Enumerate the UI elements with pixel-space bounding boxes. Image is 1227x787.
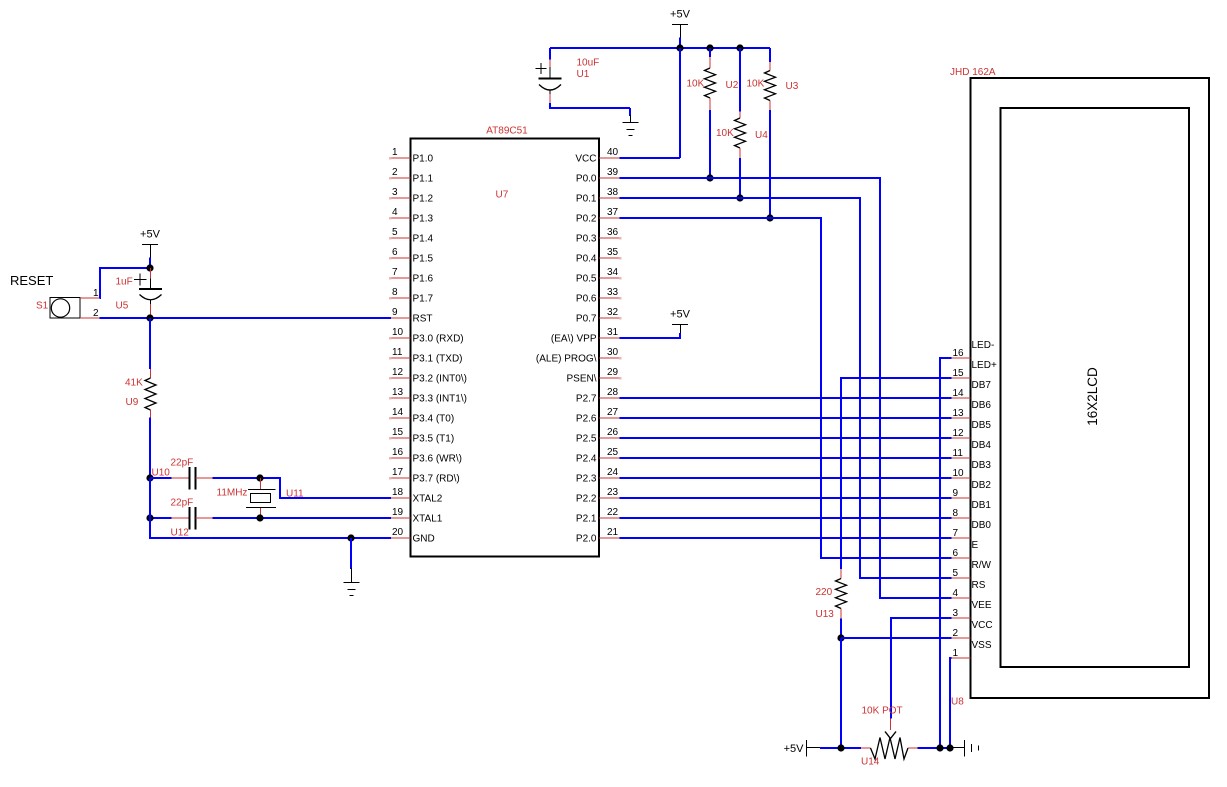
U7 pin 6 P1.5 [389,247,434,265]
svg-text:22pF: 22pF [171,498,194,509]
svg-text:U1: U1 [577,69,590,80]
U7 pin 40 VCC [575,147,619,165]
U7 pin 36 P0.3 [576,227,622,245]
wire P2.2 to DB2 [620,497,952,499]
svg-text:DB7: DB7 [972,380,992,391]
svg-text:1uF: 1uF [116,277,133,288]
svg-text:P3.1 (TXD): P3.1 (TXD) [413,354,463,365]
svg-text:P3.3 (INT1\): P3.3 (INT1\) [413,394,467,405]
svg-text:P1.6: P1.6 [413,274,434,285]
svg-text:P0.5: P0.5 [576,274,597,285]
svg-text:22: 22 [607,507,619,518]
svg-text:DB2: DB2 [972,480,992,491]
U7 pin 12 P3.2 (INT0\) [389,367,467,385]
svg-text:P1.2: P1.2 [413,194,434,205]
svg-text:14: 14 [953,388,965,399]
U8 pin 1 VSS [952,640,992,659]
svg-text:U12: U12 [171,528,190,539]
svg-text:17: 17 [392,467,404,478]
svg-text:P3.5 (T1): P3.5 (T1) [413,434,455,445]
U8 pin 4 RS [952,580,986,599]
svg-text:LED-: LED- [972,340,995,351]
svg-text:DB6: DB6 [972,400,992,411]
U8 pin 8 DB1 [952,500,992,519]
wire P2.4 to DB4 [620,457,952,459]
svg-text:P1.4: P1.4 [413,234,434,245]
svg-text:(ALE) PROG\: (ALE) PROG\ [536,354,597,365]
U7 pin 4 P1.3 [389,207,434,225]
U7 pin 14 P3.4 (T0) [389,407,454,425]
svg-text:+5V: +5V [670,309,691,321]
svg-text:P3.6 (WR\): P3.6 (WR\) [413,454,462,465]
wire U10 to XTAL2 [213,478,392,498]
U7 pin 2 P1.1 [389,167,434,185]
U8 pin 13 DB6 [952,400,992,419]
U8 pin 9 DB2 [952,480,992,499]
svg-text:P0.7: P0.7 [576,314,597,325]
svg-text:31: 31 [607,327,619,338]
svg-text:RST: RST [413,314,433,325]
U7 pin 9 RST [391,307,433,325]
U7 pin 37 P0.2 [576,207,620,225]
svg-text:15: 15 [392,427,404,438]
svg-text:25: 25 [607,447,619,458]
junction U3 / P0.2 [766,214,773,221]
wire to LCD VCC pin 2 [841,637,952,639]
wire P2.6 to DB6 [620,417,952,419]
U7 pin 15 P3.5 (T1) [389,427,454,445]
svg-text:12: 12 [953,428,965,439]
svg-text:PSEN\: PSEN\ [566,374,596,385]
svg-text:DB4: DB4 [972,440,992,451]
U8 pin 11 DB4 [952,440,992,459]
svg-text:11: 11 [953,448,964,459]
svg-text:VEE: VEE [972,600,992,611]
svg-text:10K: 10K [747,79,765,90]
svg-text:DB5: DB5 [972,420,992,431]
svg-text:RESET: RESET [10,273,53,288]
svg-text:28: 28 [607,387,619,398]
wire LED- to bottom rail [940,358,952,748]
U7 pin 26 P2.5 [576,427,620,445]
U7 pin 24 P2.3 [576,467,620,485]
svg-text:8: 8 [953,508,959,519]
svg-text:U5: U5 [116,301,129,312]
U8 pin 16 LED- [952,340,995,359]
svg-text:E: E [972,540,979,551]
wire +5V top rail [550,47,770,49]
junction VSS / rail [946,744,953,751]
svg-text:40: 40 [607,147,619,158]
power +5V bottom [784,740,820,757]
U7 pin 32 P0.7 [576,307,622,325]
svg-text:VCC: VCC [575,154,596,165]
svg-text:P3.2 (INT0\): P3.2 (INT0\) [413,374,467,385]
svg-text:VSS: VSS [972,640,992,651]
svg-text:1: 1 [953,648,959,659]
svg-text:P1.1: P1.1 [413,174,434,185]
svg-text:XTAL2: XTAL2 [413,494,443,505]
wire P0.0 to RS [620,178,952,598]
capacitor U12 22pF [150,498,213,539]
U7 pin 10 P3.0 (RXD) [389,327,464,345]
svg-text:8: 8 [392,287,398,298]
svg-text:U10: U10 [152,468,171,479]
svg-text:9: 9 [392,307,398,318]
svg-text:P2.5: P2.5 [576,434,597,445]
svg-text:P0.1: P0.1 [576,194,597,205]
svg-text:U8: U8 [951,697,964,708]
svg-text:13: 13 [953,408,965,419]
U7 pin 3 P1.2 [389,187,434,205]
power +5V at EA/VPP [670,309,691,334]
svg-text:37: 37 [607,207,619,218]
capacitor U10 22pF [150,458,213,490]
wire P2.3 to DB3 [620,477,952,479]
svg-text:20: 20 [392,527,404,538]
svg-text:XTAL1: XTAL1 [413,514,443,525]
svg-text:U13: U13 [816,609,835,620]
svg-text:P2.4: P2.4 [576,454,597,465]
junction top rail / VCC drop [676,44,683,51]
U8 pin 15 LED+ [952,360,997,379]
svg-text:6: 6 [953,548,959,559]
junction LED- / rail [936,744,943,751]
wire +5V rail left [820,747,861,749]
svg-text:U14: U14 [861,757,880,768]
wire VCC pin40 [620,157,681,159]
U7 pin 39 P0.0 [576,167,620,185]
ground (GND pin 20) [344,568,360,596]
svg-text:11: 11 [392,347,403,358]
U7 pin 27 P2.6 [576,407,620,425]
svg-text:1: 1 [392,147,398,158]
junction U13 / LCD VCC [837,634,844,641]
svg-text:5: 5 [392,227,398,238]
svg-text:P0.3: P0.3 [576,234,597,245]
wire P2.7 to DB7 [620,397,952,399]
svg-text:41K: 41K [125,378,143,389]
ground (U1) [623,115,639,136]
potentiometer U14 10K POT [861,706,918,768]
svg-text:U9: U9 [126,397,139,408]
wire VEE to pot wiper [891,618,952,719]
wire VCC node to +5V rail [840,638,842,748]
LCD module U8 JHD 162A body [950,67,1209,708]
svg-text:15: 15 [953,368,965,379]
wire P2.0 to DB0 [620,537,952,539]
svg-text:U3: U3 [786,81,799,92]
U7 pin 28 P2.7 [576,387,620,405]
junction U2 / P0.0 [706,174,713,181]
svg-text:3: 3 [392,187,398,198]
svg-text:39: 39 [607,167,619,178]
U8 pin 5 R/W [952,560,992,579]
svg-text:P2.6: P2.6 [576,414,597,425]
svg-text:10uF: 10uF [577,58,600,69]
junction U10 wire / crystal top [256,474,263,481]
svg-text:P2.1: P2.1 [576,514,597,525]
svg-text:P3.0 (RXD): P3.0 (RXD) [413,334,464,345]
U7 pin 31 (EA\) VPP [551,327,620,345]
wire RST net [100,317,392,319]
svg-text:GND: GND [413,534,435,545]
svg-text:VCC: VCC [972,620,993,631]
svg-text:16: 16 [392,447,404,458]
svg-text:+5V: +5V [140,229,161,241]
svg-text:P2.0: P2.0 [576,534,597,545]
U7 pin 34 P0.5 [576,267,622,285]
U8 pin 10 DB3 [952,460,992,479]
svg-text:16X2LCD: 16X2LCD [1085,367,1100,426]
U7 pin 30 (ALE) PROG\ [536,347,622,365]
svg-text:4: 4 [953,588,959,599]
U8 pin 2 VCC [952,620,993,639]
svg-text:R/W: R/W [972,560,992,571]
svg-text:23: 23 [607,487,619,498]
wire P2.5 to DB5 [620,437,952,439]
U7 pin 11 P3.1 (TXD) [389,347,463,365]
junction RST / U5 / U9 [146,314,153,321]
wire LED+ to U13 [841,378,952,569]
svg-text:2: 2 [953,628,959,639]
U7 pin 13 P3.3 (INT1\) [389,387,467,405]
resistor U2 10K [687,48,739,110]
U7 pin 35 P0.4 [576,247,622,265]
svg-text:6: 6 [392,247,398,258]
U8 pin 12 DB5 [952,420,992,439]
svg-text:P0.4: P0.4 [576,254,597,265]
wire VCC drop [679,48,681,158]
svg-text:1: 1 [93,288,99,299]
svg-text:12: 12 [392,367,404,378]
wire U12 to XTAL1 [213,517,392,519]
wire U4 to P0.1 [739,158,741,198]
junction +5V / S1 / U5 [146,264,153,271]
svg-text:13: 13 [392,387,404,398]
svg-text:10: 10 [953,468,965,479]
svg-text:+5V: +5V [784,743,805,755]
svg-text:10K POT: 10K POT [862,706,903,717]
svg-text:P0.6: P0.6 [576,294,597,305]
svg-text:P1.0: P1.0 [413,154,434,165]
U7 pin 22 P2.1 [576,507,620,525]
U8 pin 3 VEE [952,600,992,619]
U8 pin 14 DB7 [952,380,992,399]
ground (bottom right, rotated) [950,740,979,757]
svg-text:U7: U7 [496,190,509,201]
wire pot to ground rail [918,747,951,749]
svg-text:26: 26 [607,427,619,438]
svg-text:U11: U11 [286,489,304,500]
svg-text:36: 36 [607,227,619,238]
capacitor U1 10uF [536,48,600,103]
svg-text:DB1: DB1 [972,500,992,511]
IC U7 AT89C51 body [411,126,600,557]
svg-text:JHD 162A: JHD 162A [950,67,996,78]
svg-text:P2.2: P2.2 [576,494,597,505]
svg-text:34: 34 [607,267,619,278]
wire EA/VPP to +5V [620,333,681,338]
wire U3 to P0.2 [769,110,771,218]
svg-text:29: 29 [607,367,619,378]
svg-text:S1: S1 [36,301,49,312]
resistor U4 10K [716,48,768,158]
svg-text:35: 35 [607,247,619,258]
U7 pin 1 P1.0 [389,147,434,165]
svg-text:4: 4 [392,207,398,218]
U7 pin 21 P2.0 [576,527,620,545]
junction crystal bottom / XTAL1 wire [256,514,263,521]
switch S1 [36,288,100,319]
resistor U3 10K [747,48,799,110]
U7 pin 8 P1.7 [389,287,434,305]
svg-text:U4: U4 [755,130,768,141]
svg-text:+5V: +5V [670,9,691,21]
svg-text:30: 30 [607,347,619,358]
svg-text:(EA\) VPP: (EA\) VPP [551,334,597,345]
junction top rail / U2 [706,44,713,51]
wire GND net to pin 20 [150,478,391,538]
U7 pin 5 P1.4 [389,227,434,245]
svg-text:32: 32 [607,307,619,318]
U7 pin 29 PSEN\ [566,367,621,385]
svg-text:16: 16 [953,348,965,359]
svg-text:10K: 10K [716,128,734,139]
svg-text:2: 2 [392,167,398,178]
svg-text:24: 24 [607,467,619,478]
U8 pin 7 DB0 [952,520,992,539]
svg-text:DB0: DB0 [972,520,992,531]
junction U4 / P0.1 [736,194,743,201]
svg-text:P1.5: P1.5 [413,254,434,265]
junction top rail / U4 [736,44,743,51]
junction rail / VCC drop [837,744,844,751]
wire S1 pin1 up to +5V node [100,268,151,298]
U7 pin 17 P3.7 (RD\) [389,467,460,485]
svg-text:220: 220 [816,587,833,598]
crystal U11 11MHz [217,478,305,518]
svg-text:3: 3 [953,608,959,619]
svg-text:P2.7: P2.7 [576,394,597,405]
U8 pin 6 E [952,540,979,559]
U7 pin 7 P1.6 [389,267,434,285]
U7 pin 23 P2.2 [576,487,620,505]
svg-text:5: 5 [953,568,959,579]
wire P0.1 to R/W [620,198,952,578]
U7 pin 19 XTAL1 [391,507,443,525]
svg-text:P1.3: P1.3 [413,214,434,225]
svg-text:P2.3: P2.3 [576,474,597,485]
svg-text:10: 10 [392,327,404,338]
svg-text:27: 27 [607,407,619,418]
svg-text:P3.7 (RD\): P3.7 (RD\) [413,474,460,485]
svg-text:33: 33 [607,287,619,298]
U7 pin 25 P2.4 [576,447,620,465]
U7 pin 20 GND [391,527,435,545]
capacitor U5 1uF [116,268,163,318]
wire to ground [350,538,352,569]
svg-text:P3.4 (T0): P3.4 (T0) [413,414,455,425]
wire P0.2 to E [620,218,952,558]
resistor U13 220 [816,569,847,620]
svg-text:22pF: 22pF [171,458,194,469]
svg-text:9: 9 [953,488,959,499]
svg-text:P1.7: P1.7 [413,294,434,305]
resistor U9 41K [125,318,156,418]
svg-text:7: 7 [953,528,959,539]
power +5V reset [140,229,161,269]
svg-text:2: 2 [93,308,99,319]
wire VSS to bottom rail [950,658,952,748]
wire U13 to VCC node [840,619,842,639]
power +5V top [670,9,691,49]
svg-text:11MHz: 11MHz [217,488,248,499]
wire U2 to P0.0 [709,110,711,178]
U7 pin 18 XTAL2 [391,487,443,505]
svg-text:LED+: LED+ [972,360,997,371]
svg-text:18: 18 [392,487,404,498]
svg-text:P0.0: P0.0 [576,174,597,185]
wire P2.1 to DB1 [620,517,952,519]
svg-text:RS: RS [972,580,986,591]
U7 pin 38 P0.1 [576,187,620,205]
wire U1 to ground [550,103,630,108]
svg-text:38: 38 [607,187,619,198]
svg-text:DB3: DB3 [972,460,992,471]
svg-text:10K: 10K [687,79,705,90]
svg-text:P0.2: P0.2 [576,214,597,225]
svg-text:7: 7 [392,267,398,278]
svg-text:14: 14 [392,407,404,418]
svg-text:21: 21 [607,527,619,538]
U7 pin 16 P3.6 (WR\) [389,447,462,465]
junction GND wire / ground [347,534,354,541]
U7 pin 33 P0.6 [576,287,622,305]
svg-text:U2: U2 [726,80,739,91]
wire U9 to XTAL node [149,418,151,479]
junction U9 / U10 [146,474,153,481]
svg-text:19: 19 [392,507,404,518]
svg-text:AT89C51: AT89C51 [486,126,528,137]
junction U10-U12 drop [146,514,153,521]
